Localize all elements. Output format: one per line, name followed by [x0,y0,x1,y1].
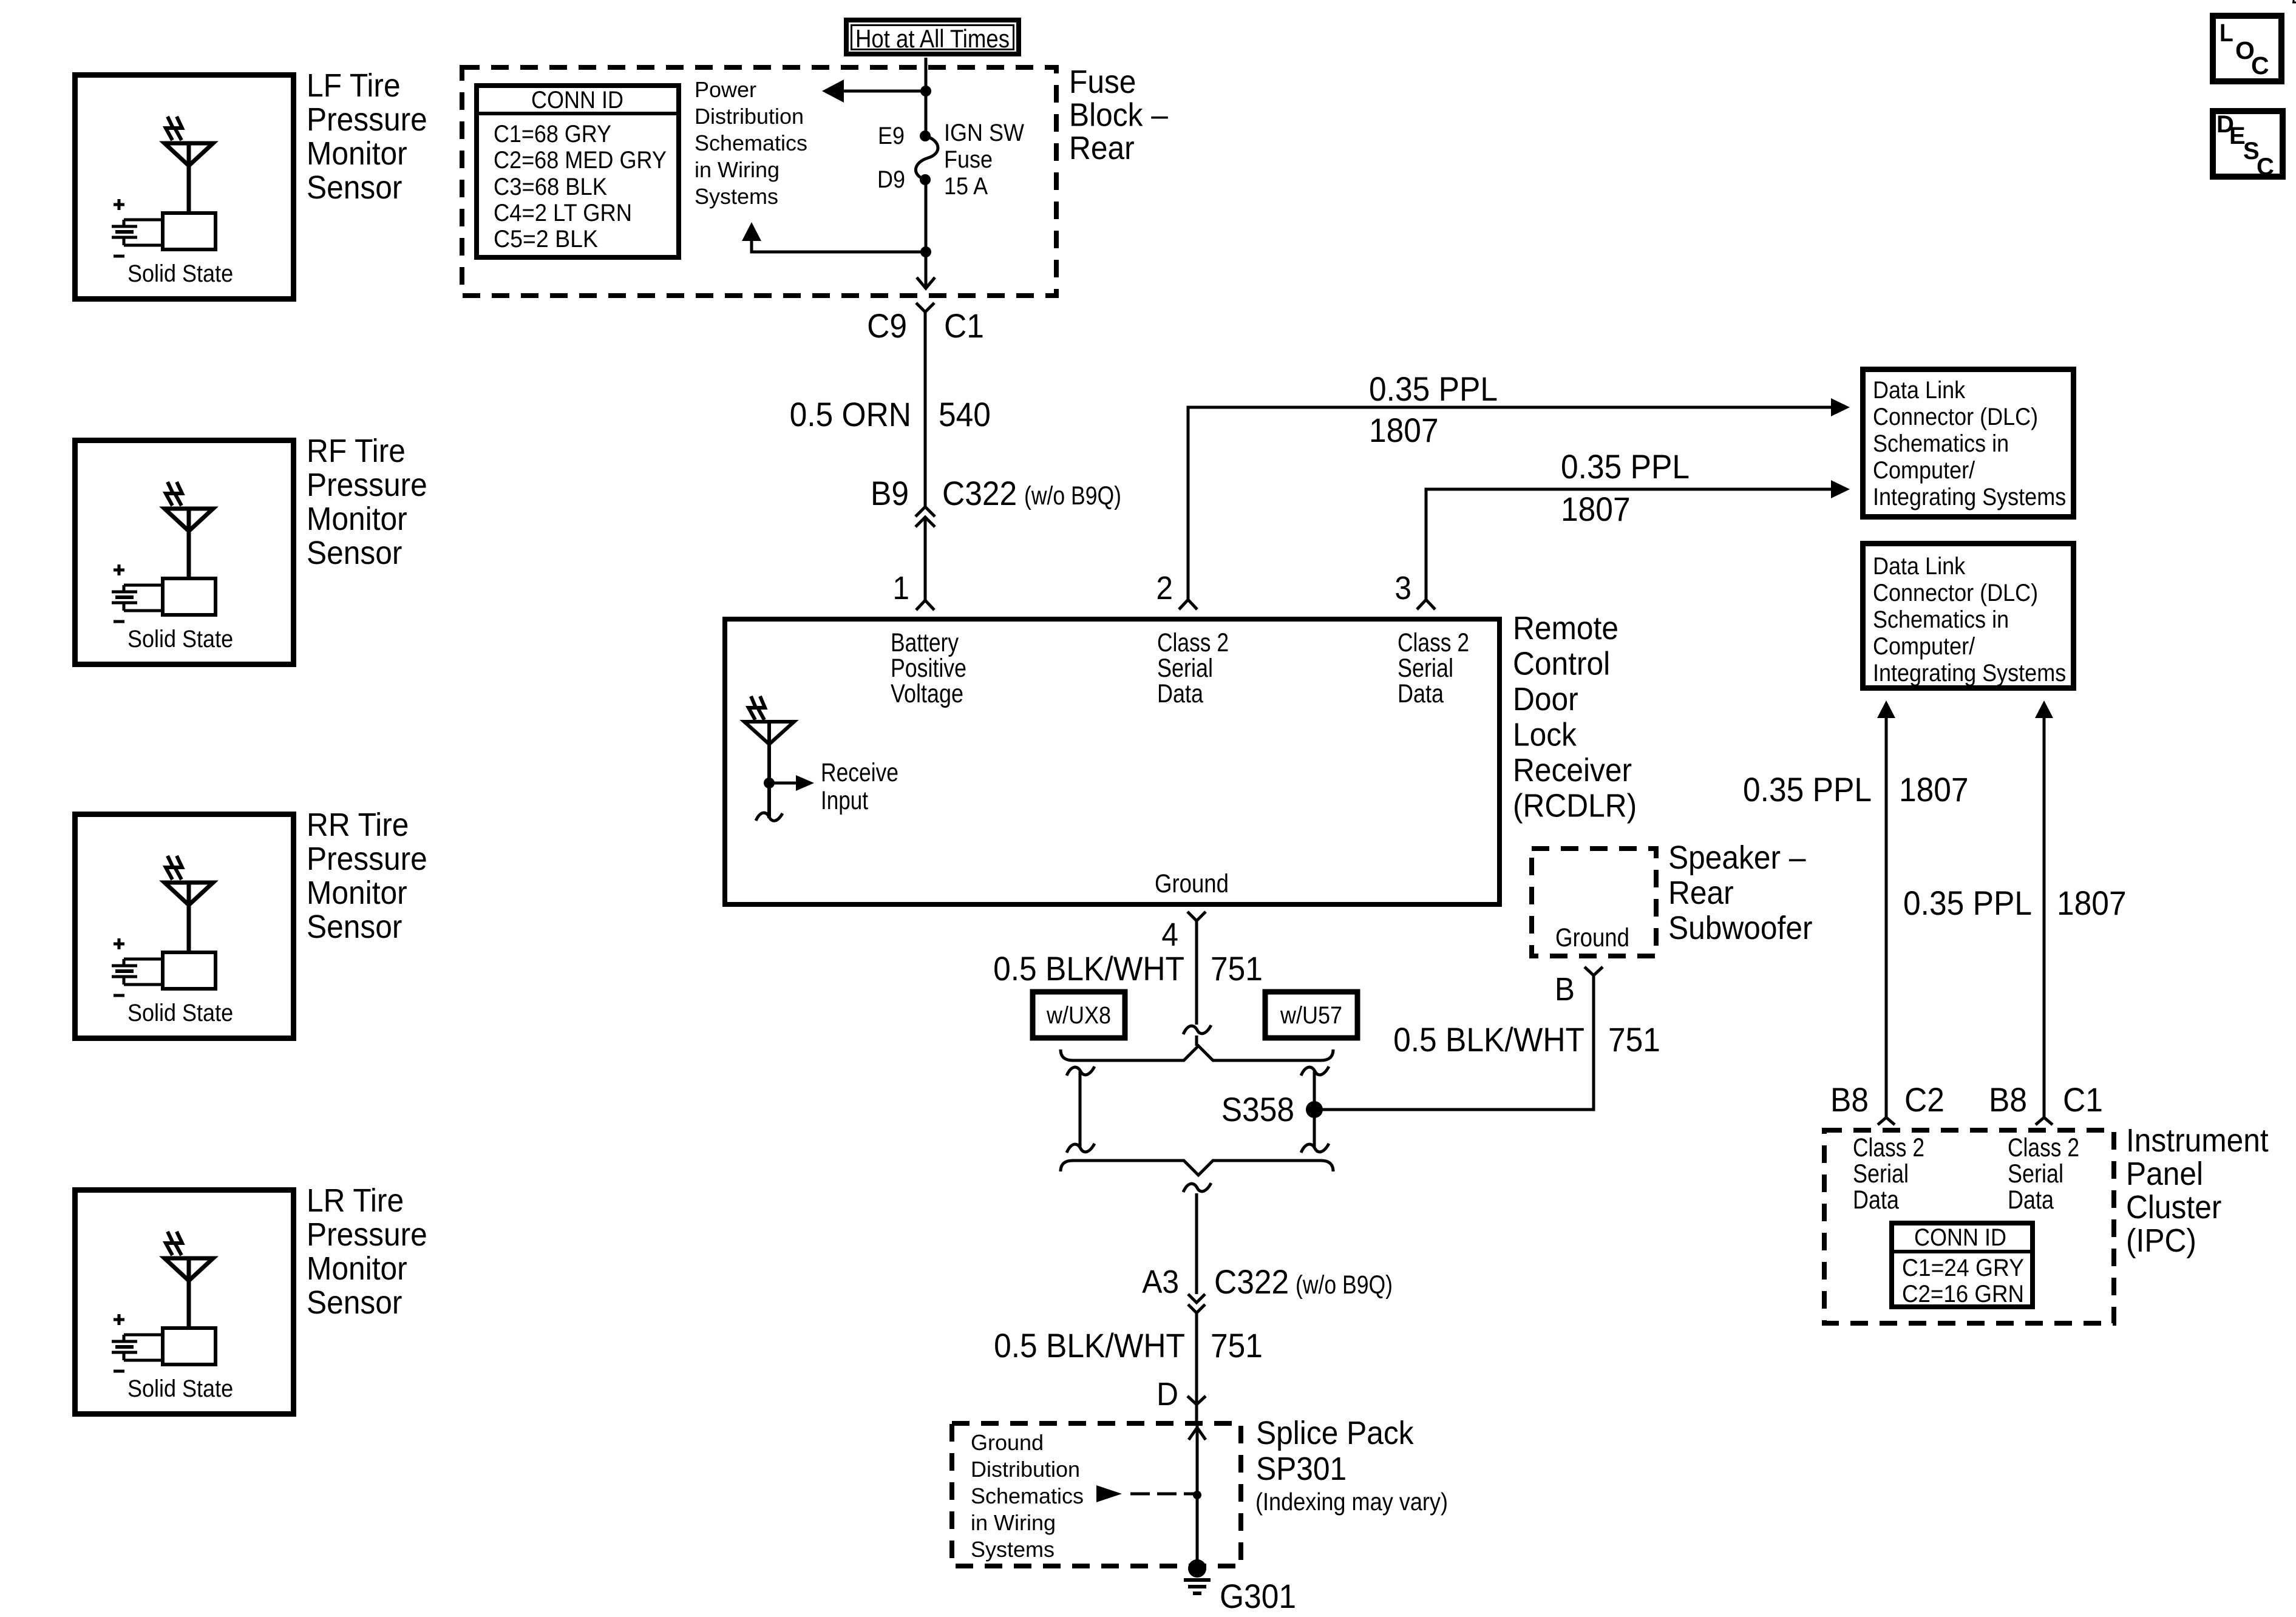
pin 3 connector [1417,600,1435,609]
svg-text:Block –: Block – [1069,97,1168,134]
CONN ID table IPC [1892,1223,2033,1307]
svg-text:Rear: Rear [1069,130,1135,166]
svg-text:Rear: Rear [1668,875,1734,911]
svg-text:C: C [2251,52,2269,80]
svg-text:Pressure: Pressure [307,1216,427,1253]
svg-text:751: 751 [1608,1020,1660,1059]
label Class 2 Serial Data pin 2 [1157,628,1229,708]
note Ground Distribution Schematics in Wiring Systems [971,1430,1084,1562]
LF Tire Pressure Monitor Sensor [75,75,294,299]
svg-text:Fuse: Fuse [1069,64,1136,100]
label IGN SW Fuse 15 A [944,120,1024,200]
svg-text:C1=24 GRY: C1=24 GRY [1902,1255,2024,1281]
svg-text:1807: 1807 [1561,490,1631,528]
svg-text:(IPC): (IPC) [2126,1222,2196,1259]
label Class 2 Serial Data IPC left [1853,1133,1924,1215]
svg-text:Pressure: Pressure [307,101,427,138]
svg-text:LF Tire: LF Tire [307,67,401,104]
svg-text:Sensor: Sensor [307,169,402,206]
wire break symbol upper [1183,1025,1211,1046]
svg-text:Class 2: Class 2 [1157,628,1229,657]
corner mark [2292,0,2296,2]
svg-text:w/UX8: w/UX8 [1046,1002,1111,1029]
label Class 2 Serial Data pin 3 [1398,628,1469,708]
fuse IGN SW 15 A [915,131,938,185]
svg-text:B8: B8 [1989,1080,2027,1119]
svg-text:Speaker –: Speaker – [1668,839,1806,876]
svg-text:540: 540 [939,395,991,433]
svg-text:Monitor: Monitor [307,875,407,911]
svg-text:Input: Input [821,786,868,815]
Data Link Connector DLC box lower [1863,544,2074,688]
svg-text:Ground: Ground [1555,923,1629,952]
svg-text:in Wiring: in Wiring [695,157,779,182]
svg-text:Battery: Battery [891,628,959,657]
svg-text:C322: C322 [1214,1263,1289,1301]
svg-text:Class 2: Class 2 [2008,1133,2079,1162]
svg-text:Monitor: Monitor [307,135,407,172]
label Speaker Rear Subwoofer [1668,839,1813,946]
svg-text:1: 1 [892,570,909,606]
connector pin B speaker [1584,967,1603,975]
svg-text:1807: 1807 [2057,884,2127,922]
arrowhead at fuse block exit [917,277,935,288]
Hot at All Times box [846,20,1019,54]
wire inside splice pack [1189,1421,1206,1568]
connector C322 at B9 [915,507,935,600]
svg-text:Monitor: Monitor [307,1250,407,1287]
connector pin D splice pack [1187,1396,1206,1421]
wire battery feed vertical [925,58,928,288]
note Power Distribution Schematics in Wiring Systems [695,77,807,209]
svg-text:Lock: Lock [1513,717,1577,753]
wire IPC C1 to DLC [2035,700,2053,1117]
connector C322 at A3 [1188,1294,1205,1405]
DESC box [2213,111,2283,180]
svg-text:Pressure: Pressure [307,467,427,503]
svg-text:0.5 BLK/WHT: 0.5 BLK/WHT [993,949,1184,988]
brace bottom [1061,1161,1333,1175]
antenna receive input [744,696,814,821]
svg-text:1807: 1807 [1369,411,1439,449]
leader arrow to splice [1096,1485,1195,1502]
svg-text:(Indexing may vary): (Indexing may vary) [1255,1488,1448,1516]
svg-text:1807: 1807 [1899,770,1969,808]
LR Tire Pressure Monitor Sensor [75,1190,294,1414]
svg-text:B: B [1555,971,1575,1008]
junction lower [920,246,931,257]
wire class 2 serial data pin 3 to DLC [1426,480,1850,600]
RF Tire Pressure Monitor Sensor [75,441,294,665]
svg-text:Distribution: Distribution [695,104,804,129]
svg-text:0.5 BLK/WHT: 0.5 BLK/WHT [1393,1020,1584,1059]
RCDLR box [725,619,1500,904]
svg-text:Door: Door [1513,681,1578,717]
svg-text:B9: B9 [871,474,909,512]
svg-text:3: 3 [1394,570,1411,606]
svg-text:Control: Control [1513,646,1610,682]
option branch w/UX8 [1067,1066,1095,1153]
svg-text:Integrating Systems: Integrating Systems [1873,484,2066,510]
svg-text:CONN ID: CONN ID [1914,1224,2006,1251]
svg-text:Power: Power [695,77,756,102]
label RF Tire Pressure Monitor Sensor [307,433,427,571]
svg-text:C1=68 GRY: C1=68 GRY [494,121,611,147]
label Remote Control Door Lock Receiver (RCDLR) [1513,610,1637,824]
svg-text:0.35 PPL: 0.35 PPL [1743,770,1872,808]
svg-text:(w/o B9Q): (w/o B9Q) [1024,481,1121,510]
Speaker Rear Subwoofer dashed box [1532,849,1656,956]
svg-text:D9: D9 [877,166,905,193]
svg-text:(RCDLR): (RCDLR) [1513,788,1637,824]
LOC box [2213,16,2281,81]
ground G301 [1184,1559,1211,1593]
svg-text:Distribution: Distribution [971,1457,1080,1482]
connector B8/C1 [2036,1117,2053,1125]
svg-text:C2: C2 [1904,1080,1944,1119]
svg-text:Splice Pack: Splice Pack [1256,1415,1415,1451]
svg-text:(w/o B9Q): (w/o B9Q) [1296,1270,1393,1300]
svg-text:LR Tire: LR Tire [307,1182,404,1219]
svg-text:IGN SW: IGN SW [944,120,1024,146]
svg-text:Data: Data [1853,1185,1899,1215]
svg-text:Schematics in: Schematics in [1873,606,2009,633]
svg-text:G301: G301 [1220,1577,1296,1615]
svg-text:0.5 BLK/WHT: 0.5 BLK/WHT [994,1326,1185,1364]
svg-text:E9: E9 [878,123,905,149]
svg-text:Schematics in: Schematics in [1873,430,2009,457]
Splice Pack SP301 dashed box [952,1423,1241,1566]
svg-text:in Wiring: in Wiring [971,1510,1056,1535]
svg-text:Data Link: Data Link [1873,553,1966,580]
connector C9/C1 [916,303,934,507]
Fuse Block - Rear dashed box [462,67,1056,296]
svg-text:Connector (DLC): Connector (DLC) [1873,404,2038,430]
svg-text:Sensor: Sensor [307,1284,402,1321]
label LF Tire Pressure Monitor Sensor [307,67,427,206]
CONN ID table fuse block [477,86,679,257]
label Receive Input [821,758,898,815]
svg-text:Cluster: Cluster [2126,1189,2221,1225]
pin 1 connector [916,600,934,610]
pin 4 connector Ground [1187,912,1206,1025]
label LR Tire Pressure Monitor Sensor [307,1182,427,1321]
svg-text:S358: S358 [1221,1090,1294,1128]
svg-text:Data: Data [1157,679,1203,708]
svg-text:Hot at All Times: Hot at All Times [855,24,1010,53]
svg-text:Systems: Systems [971,1537,1055,1562]
svg-text:Class 2: Class 2 [1398,628,1469,657]
svg-text:Schematics: Schematics [971,1483,1084,1508]
svg-text:C: C [2257,154,2274,180]
svg-text:Class 2: Class 2 [1853,1133,1924,1162]
svg-text:C1: C1 [944,307,984,345]
junction [920,86,931,97]
svg-text:w/U57: w/U57 [1280,1002,1342,1029]
svg-text:Receive: Receive [821,758,898,787]
RR Tire Pressure Monitor Sensor [75,815,294,1039]
wire arrow up to power distribution [742,222,926,252]
svg-text:Systems: Systems [695,184,778,209]
svg-text:Serial: Serial [1398,654,1453,683]
svg-text:Ground: Ground [971,1430,1044,1455]
svg-text:751: 751 [1211,1326,1263,1364]
label Splice Pack SP301 [1256,1415,1415,1487]
option w/U57 box [1265,992,1357,1038]
svg-text:Data Link: Data Link [1873,377,1966,404]
label Battery Positive Voltage [891,628,966,708]
wire arrow to power distribution schematics [822,80,926,103]
svg-text:Subwoofer: Subwoofer [1668,910,1813,946]
svg-text:C1: C1 [2063,1080,2103,1119]
svg-text:Instrument: Instrument [2126,1122,2269,1159]
svg-text:0.35 PPL: 0.35 PPL [1369,370,1498,408]
svg-text:A3: A3 [1142,1264,1179,1300]
svg-text:C4=2 LT GRN: C4=2 LT GRN [494,200,632,226]
svg-text:Serial: Serial [2008,1159,2063,1188]
svg-text:C5=2 BLK: C5=2 BLK [494,226,598,253]
svg-text:Data: Data [2008,1185,2054,1215]
svg-text:Fuse: Fuse [944,146,993,173]
svg-text:L: L [2220,19,2233,47]
Instrument Panel Cluster dashed box [1824,1130,2114,1323]
svg-text:B8: B8 [1830,1080,1869,1119]
Data Link Connector DLC box upper [1863,370,2074,517]
label Class 2 Serial Data IPC right [2008,1133,2079,1215]
svg-text:Data: Data [1398,679,1444,708]
svg-text:Sensor: Sensor [307,535,402,571]
wire break symbol lower [1183,1183,1211,1294]
svg-text:SP301: SP301 [1256,1451,1347,1487]
svg-text:Panel: Panel [2126,1156,2203,1192]
svg-text:C322: C322 [942,474,1017,512]
svg-text:RF Tire: RF Tire [307,433,406,469]
svg-text:Positive: Positive [891,654,966,683]
svg-text:Integrating Systems: Integrating Systems [1873,660,2066,686]
wire S358 to speaker ground B [1314,975,1594,1110]
option branch w/U57 with splice S358 [1301,1066,1329,1153]
svg-text:751: 751 [1211,949,1263,988]
svg-text:D: D [1156,1376,1178,1412]
label Instrument Panel Cluster (IPC) [2126,1122,2269,1259]
svg-text:Serial: Serial [1853,1159,1909,1188]
svg-text:Receiver: Receiver [1513,752,1632,788]
svg-text:4: 4 [1161,917,1178,953]
svg-text:C9: C9 [867,307,907,345]
svg-text:Sensor: Sensor [307,909,402,945]
brace top [1061,1046,1333,1060]
svg-text:C2=68 MED GRY: C2=68 MED GRY [494,147,667,174]
label RR Tire Pressure Monitor Sensor [307,807,427,945]
svg-text:Connector (DLC): Connector (DLC) [1873,580,2038,606]
svg-text:Schematics: Schematics [695,131,807,155]
svg-text:C3=68 BLK: C3=68 BLK [494,174,607,200]
svg-text:Serial: Serial [1157,654,1213,683]
svg-text:15 A: 15 A [944,173,988,200]
svg-text:CONN ID: CONN ID [531,87,623,114]
svg-text:Monitor: Monitor [307,501,407,537]
svg-text:RR Tire: RR Tire [307,807,409,843]
svg-text:C2=16 GRN: C2=16 GRN [1902,1281,2024,1307]
wire IPC C2 to DLC [1877,700,1895,1117]
option w/UX8 box [1033,992,1125,1038]
connector B8/C2 [1878,1117,1895,1125]
svg-text:Remote: Remote [1513,610,1618,646]
label Fuse Block - Rear [1069,64,1168,166]
svg-text:Ground: Ground [1155,869,1229,898]
svg-text:0.35 PPL: 0.35 PPL [1903,884,2032,922]
svg-text:0.35 PPL: 0.35 PPL [1561,447,1690,486]
svg-text:Pressure: Pressure [307,841,427,877]
svg-text:Computer/: Computer/ [1873,633,1975,660]
pin 2 connector [1179,600,1197,609]
svg-text:Computer/: Computer/ [1873,457,1975,484]
svg-text:Voltage: Voltage [891,679,963,708]
svg-text:2: 2 [1156,570,1173,606]
wire class 2 serial data pin 2 to DLC [1188,398,1850,600]
svg-text:0.5 ORN: 0.5 ORN [790,395,911,433]
